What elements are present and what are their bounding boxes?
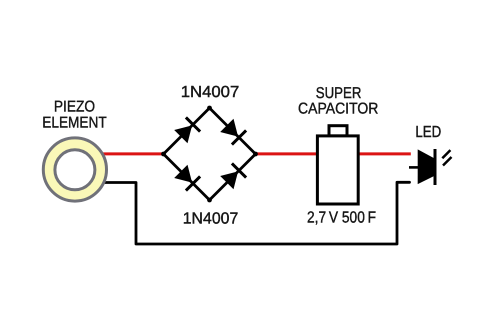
svg-text:PIEZO: PIEZO <box>54 99 95 116</box>
svg-text:ELEMENT: ELEMENT <box>42 114 107 131</box>
svg-text:LED: LED <box>415 124 441 141</box>
node bottom <box>207 198 212 203</box>
LED cathode bar <box>434 149 437 185</box>
wire red: bridge right node to LED <box>256 152 411 155</box>
LED anode lead stub <box>409 166 419 169</box>
LED light arrow 2 <box>443 157 452 166</box>
LED triangle <box>418 149 435 184</box>
diode D4 (bottom-right arm) <box>220 163 246 189</box>
wire: black return path piezo to LED <box>103 182 410 244</box>
piezo element inner circle <box>55 150 95 190</box>
piezo element outer ring <box>43 138 106 201</box>
diode D3 (left-bottom arm) <box>174 165 200 191</box>
diode D2 (top-right arm) <box>220 119 246 145</box>
diode D1 (left-top arm) <box>174 117 200 143</box>
wire red: piezo to bridge left node <box>100 152 164 155</box>
LED light arrow 1 <box>442 150 450 158</box>
svg-text:2,7 V 500 F: 2,7 V 500 F <box>307 210 376 227</box>
node right <box>253 152 258 157</box>
supercap body C1 <box>317 136 358 204</box>
svg-text:SUPER: SUPER <box>316 85 362 102</box>
label SUPER CAPACITOR <box>298 85 378 118</box>
bridge rectifier diamond wires <box>164 108 256 200</box>
node top <box>207 106 212 111</box>
svg-text:1N4007: 1N4007 <box>183 210 239 227</box>
label PIEZO ELEMENT <box>42 99 107 132</box>
supercap top tab <box>329 126 347 136</box>
svg-text:1N4007: 1N4007 <box>181 84 240 101</box>
node left <box>161 152 166 157</box>
svg-text:CAPACITOR: CAPACITOR <box>298 101 378 118</box>
